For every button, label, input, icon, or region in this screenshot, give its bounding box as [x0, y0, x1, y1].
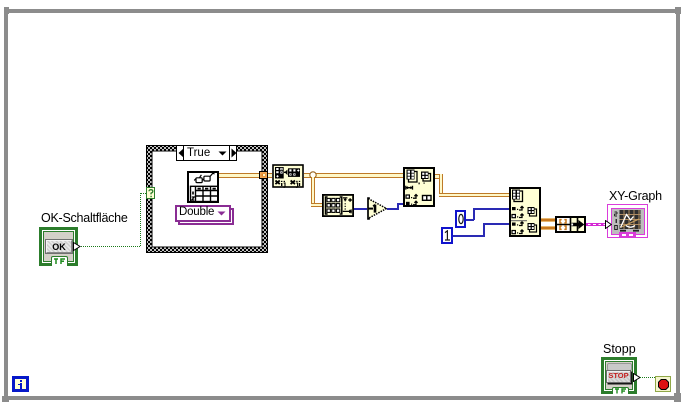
brackets	[326, 197, 328, 214]
row2 hollow	[512, 214, 515, 217]
TF tab	[612, 387, 629, 395]
XY-Graph terminal	[607, 204, 648, 238]
blue wire matrix size to decrement	[354, 208, 367, 210]
connector arrow	[284, 171, 287, 173]
1D array wire index array to bundle (row 2)	[541, 227, 555, 230]
stopp output arrow	[633, 373, 641, 382]
2D array wire array subset to index array	[435, 174, 443, 179]
iteration terminal i	[12, 376, 29, 392]
OK-Schaltfläche label	[41, 211, 128, 225]
boolean wire OK to case	[81, 246, 141, 247]
enum constant Double	[178, 208, 234, 225]
OK output arrow	[73, 242, 81, 251]
2D array wire tunnel to transpose	[268, 173, 272, 178]
left column glyphs	[192, 192, 194, 195]
XY-Graph label	[609, 189, 662, 203]
right matrix	[288, 168, 300, 177]
divider	[511, 219, 527, 221]
orange brackets row1	[560, 220, 566, 223]
express VI read spreadsheet icon	[187, 171, 219, 203]
arrow	[572, 220, 585, 229]
Xji	[291, 180, 295, 184]
boolean wire stopp to loop condition	[640, 377, 655, 378]
small array grid with shadow	[423, 174, 431, 182]
length symbol	[406, 186, 413, 190]
stop button top strip	[607, 363, 632, 371]
junction	[309, 171, 317, 179]
case structure	[146, 145, 268, 253]
1D array wire index array to bundle (row 1)	[541, 219, 555, 222]
bundle node	[555, 216, 586, 233]
wire express icon to tunnel (2D array orange)	[218, 173, 260, 178]
array glyph with shadow	[514, 191, 523, 202]
numeric constant 1	[441, 227, 453, 244]
small grid right 1 with shadow	[530, 209, 537, 216]
loop condition stop sign	[655, 376, 671, 392]
big array grid with shadow	[409, 172, 418, 183]
XY graph input arrow	[605, 220, 612, 229]
index row 2 (filled)	[406, 202, 410, 205]
TF tab	[51, 256, 68, 266]
header glyphs	[198, 188, 201, 190]
two-cell box bottom right	[423, 196, 432, 201]
matrix size node	[322, 194, 354, 217]
transpose 2D array node	[272, 164, 304, 188]
stop button face	[606, 370, 631, 384]
cluster adornment at bottom	[619, 232, 636, 238]
case selector tunnel ?	[146, 187, 155, 199]
row4 hollow	[512, 230, 515, 233]
dots	[419, 183, 420, 185]
Xij	[275, 180, 279, 184]
index array node	[509, 187, 541, 237]
case selector label True	[176, 145, 237, 161]
OK button face	[45, 239, 73, 254]
table	[191, 186, 218, 201]
small grid right 2 with shadow	[530, 225, 537, 232]
blue wire 0 to index array	[466, 219, 474, 221]
2D array wire down to matrix size	[311, 177, 316, 207]
orange brackets row2	[560, 226, 566, 229]
cluster wire to XY graph	[586, 223, 608, 226]
row1 filled	[512, 207, 516, 210]
decrement node	[365, 197, 388, 220]
tiny axis digits	[615, 212, 618, 216]
numeric constant 0	[455, 210, 466, 228]
glasses	[196, 178, 202, 183]
right glyphs	[343, 198, 347, 202]
Stopp button terminal	[601, 357, 637, 394]
2D array wire transpose to junction to array subset	[304, 173, 403, 178]
OK button terminal	[39, 227, 78, 266]
index row 1 (hollow)	[406, 195, 409, 198]
row3 filled	[512, 222, 516, 225]
3x3 squares	[327, 198, 340, 212]
blue wire decrement to array subset	[387, 208, 399, 210]
orange tunnel on case border	[259, 171, 268, 179]
Stopp label	[603, 342, 636, 356]
left matrix	[275, 167, 284, 179]
blue wire 1 to index array	[453, 235, 485, 237]
array subset node	[403, 167, 435, 207]
